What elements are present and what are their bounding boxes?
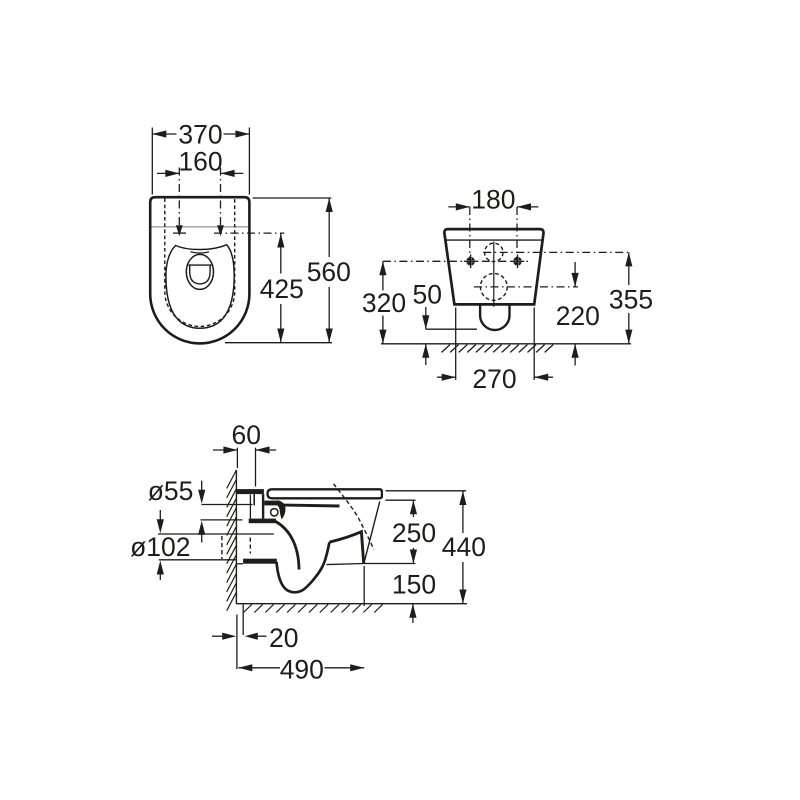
svg-text:355: 355 <box>609 285 653 315</box>
svg-text:160: 160 <box>178 146 222 176</box>
svg-text:250: 250 <box>392 518 436 548</box>
svg-text:370: 370 <box>178 120 222 150</box>
svg-text:20: 20 <box>269 623 298 653</box>
svg-text:ø102: ø102 <box>130 532 190 562</box>
svg-text:180: 180 <box>471 185 515 215</box>
svg-text:320: 320 <box>362 288 406 318</box>
svg-text:490: 490 <box>280 654 324 684</box>
svg-text:50: 50 <box>413 280 442 310</box>
svg-text:60: 60 <box>231 420 260 450</box>
svg-text:560: 560 <box>307 257 351 287</box>
svg-text:220: 220 <box>556 301 600 331</box>
svg-text:440: 440 <box>442 532 486 562</box>
svg-text:150: 150 <box>392 569 436 599</box>
svg-text:425: 425 <box>260 274 304 304</box>
svg-text:ø55: ø55 <box>148 476 194 506</box>
svg-text:270: 270 <box>472 364 516 394</box>
